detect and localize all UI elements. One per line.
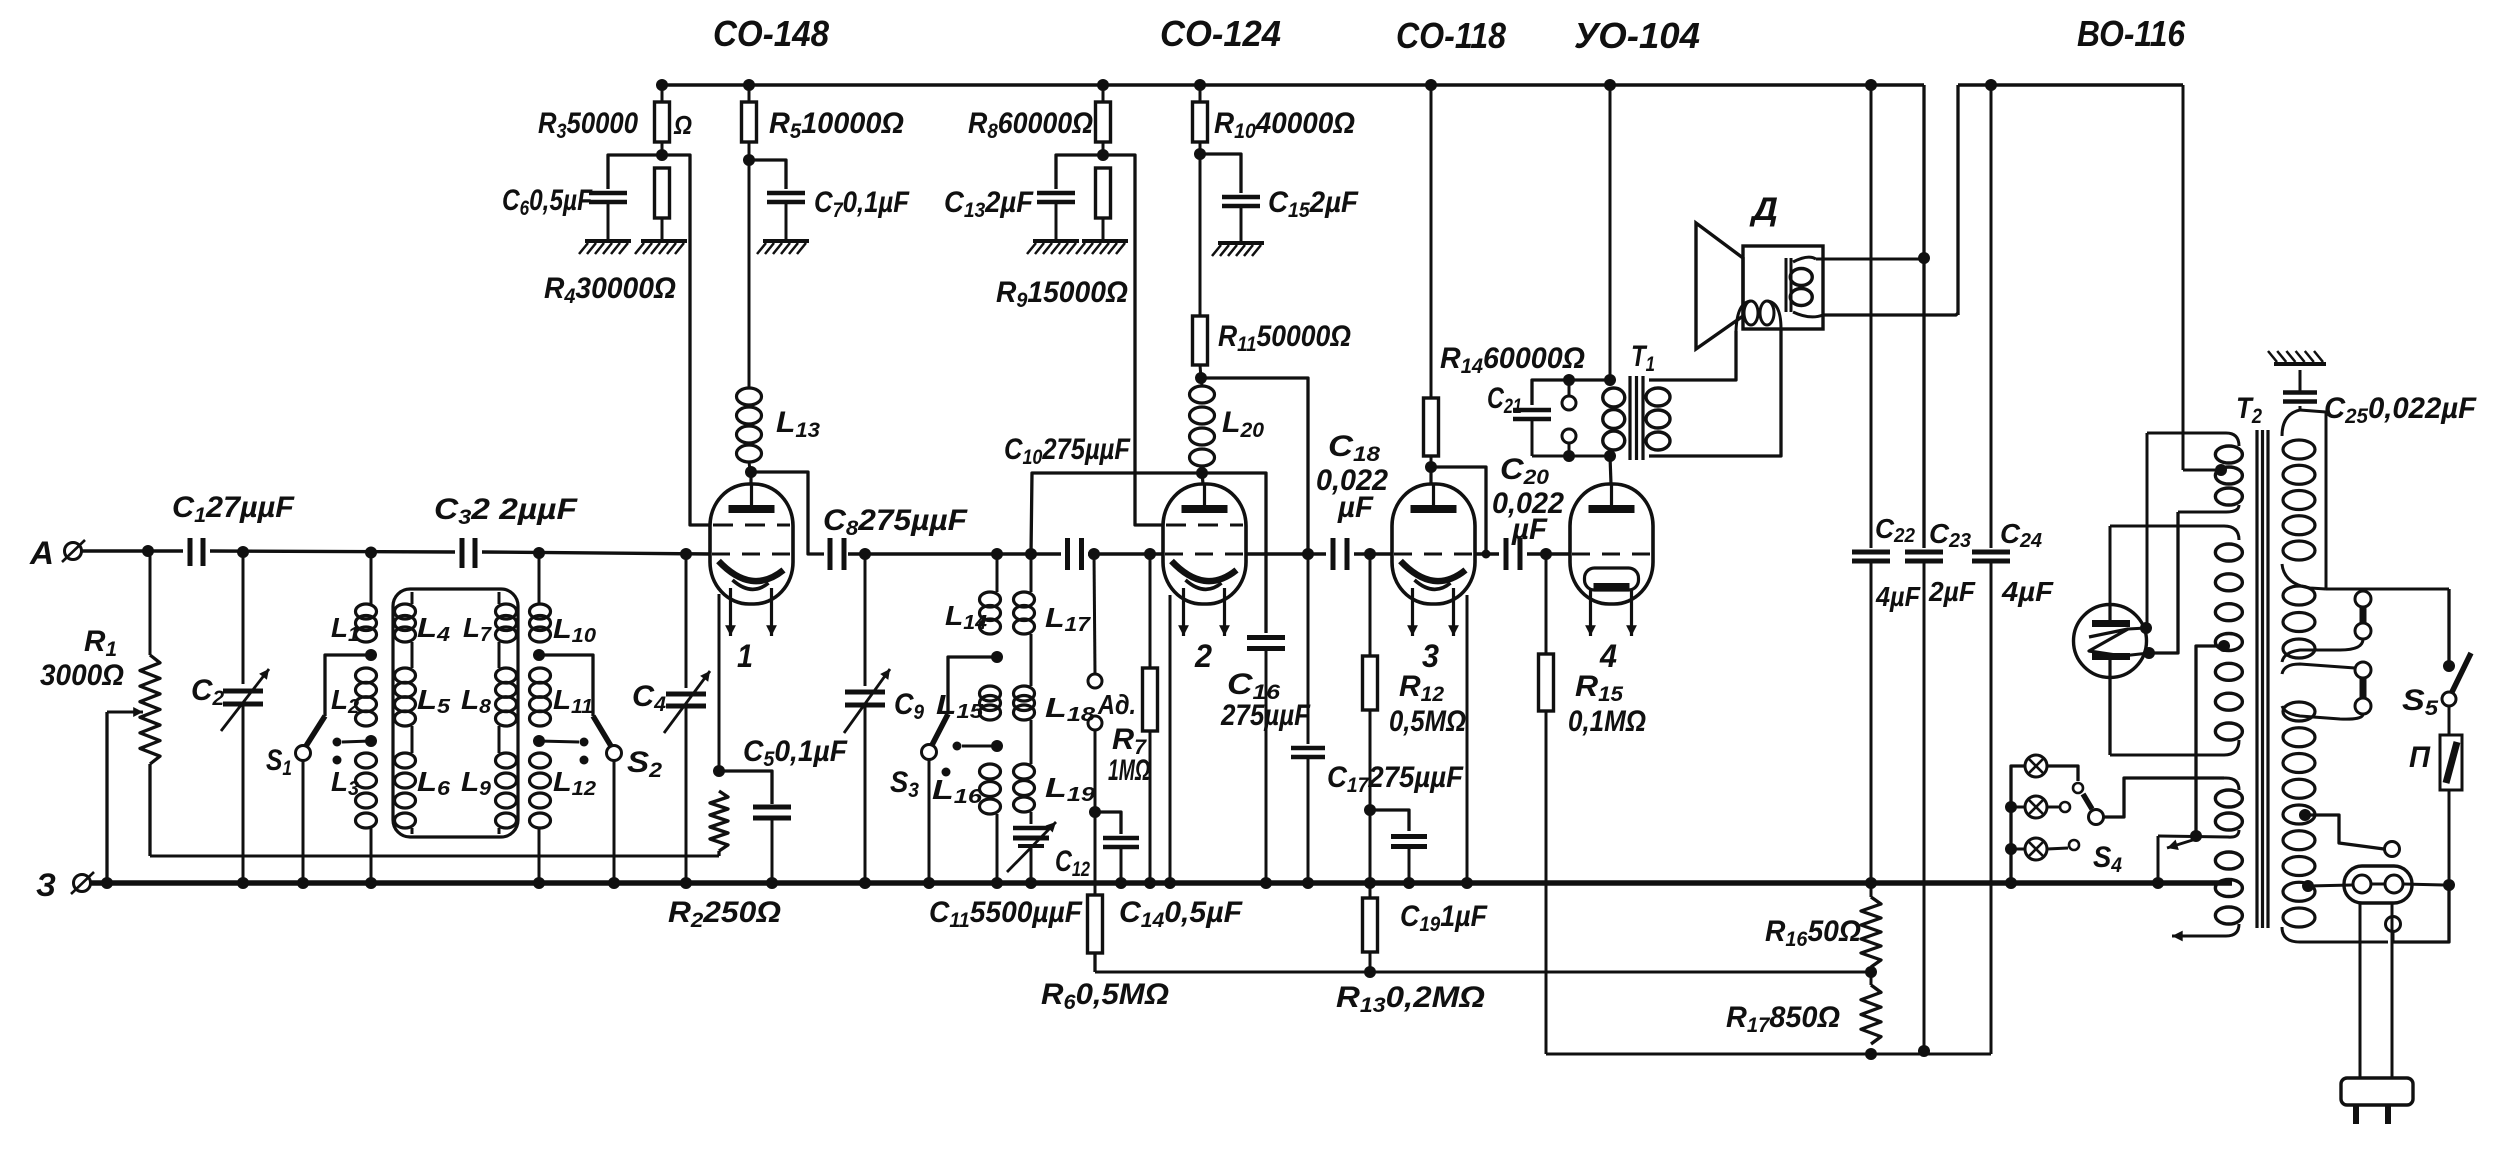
label R12: [1399, 670, 1444, 706]
node rect fil left: [2140, 622, 2152, 634]
node mains tap b: [2302, 880, 2314, 892]
inductor L12: [530, 753, 551, 883]
label R14 60000Ω: [1440, 342, 1585, 378]
switch S5: [2442, 589, 2471, 735]
wire T1 sec top: [1649, 331, 1736, 380]
ground C15: [1212, 243, 1264, 256]
inductor L6: [395, 753, 416, 834]
ground R4: [635, 241, 687, 254]
speaker body: [1743, 246, 1823, 329]
wire R1-R2 link: [150, 855, 719, 858]
resistor R1 3000: [140, 551, 160, 856]
label tube4 number: [1599, 638, 1617, 674]
resistor R13 0.2M: [1363, 883, 1378, 972]
label C8 275µµF: [823, 504, 968, 540]
wire R1 wiper: [107, 707, 143, 883]
node L14-L15: [991, 651, 1003, 663]
label L12: [553, 766, 596, 800]
inductor L14: [980, 554, 1001, 634]
rectifier tube VO-116: [2074, 605, 2147, 678]
wire tube2 top stem: [1202, 473, 1203, 484]
capacitor C23 2uF: [1905, 85, 1943, 1051]
label type VO-116: [2077, 13, 2186, 54]
label R17 850Ω: [1726, 1001, 1840, 1037]
wire tube3 top stem: [1429, 467, 1432, 484]
label R4 30000Ω: [544, 272, 676, 308]
inductor L13: [737, 160, 762, 470]
label C1 27µµF: [172, 491, 295, 527]
node tube1 cathode: [713, 765, 725, 777]
svg-text:R1650Ω: R1650Ω: [1765, 915, 1861, 951]
label S3: [890, 766, 919, 802]
wire rect anode bottom: [2108, 678, 2111, 755]
label C15 2µF: [1268, 186, 1359, 222]
svg-text:4µF: 4µF: [1875, 581, 1921, 612]
transformer T1 primary: [1603, 388, 1625, 450]
inductor L9: [496, 753, 517, 834]
wire HT plus: [2183, 85, 2221, 470]
label S1: [266, 744, 292, 780]
fuse П: [2440, 735, 2462, 885]
node R5 bottom: [743, 154, 755, 166]
label R3 ohm: [673, 110, 692, 140]
label tube1 number: [737, 638, 753, 674]
switch S1: [296, 655, 372, 883]
resistor R5 10000: [742, 85, 757, 160]
resistor R10 40000: [1193, 85, 1208, 154]
svg-text:СО-124: СО-124: [1160, 13, 1281, 54]
inductor L10: [530, 553, 551, 642]
inductor L16: [980, 764, 1001, 883]
label L18: [1045, 692, 1096, 726]
label C3 22µµF: [434, 493, 578, 529]
speaker voice coil: [1736, 301, 1781, 331]
label R2 250Ω: [668, 896, 781, 932]
svg-text:З: З: [36, 867, 56, 903]
resistor R8 60000: [1096, 85, 1111, 155]
node L1-L2: [365, 649, 377, 661]
jack bottom: [1562, 429, 1576, 462]
label C22: [1875, 513, 1915, 547]
svg-text:Д: Д: [1749, 191, 1778, 227]
capacitor C21: [1513, 380, 1610, 456]
node R3-R4: [656, 149, 668, 161]
node bus dots right: [1865, 877, 2164, 889]
switch S3: [922, 657, 998, 883]
label C18: [1328, 430, 1380, 466]
jack top: [1562, 374, 1576, 410]
wire plate line stage3-4: [1475, 552, 1570, 555]
voltage link 1: [2282, 591, 2371, 662]
svg-text:275µµF: 275µµF: [1220, 699, 1310, 732]
speaker horn: [1696, 223, 1743, 349]
inductor L1: [356, 552, 377, 642]
wire rect fil left: [2128, 433, 2147, 629]
label C2: [191, 674, 224, 710]
node bus dots left: [101, 877, 778, 889]
T2 filament winding D: [2184, 852, 2242, 936]
label C5 0,1µF: [743, 735, 848, 771]
capacitor C15: [1200, 154, 1260, 243]
inductor L8: [496, 668, 517, 753]
label C21: [1487, 382, 1522, 418]
label C12: [1055, 845, 1090, 881]
resistor R7 1M: [1143, 554, 1158, 883]
node T1 bottom: [1604, 450, 1616, 462]
capacitor C20: [1506, 538, 1520, 570]
svg-text:µF: µF: [1337, 491, 1374, 524]
label L19: [1045, 772, 1096, 806]
label C23 value: [1928, 576, 1976, 607]
svg-text:C191µF: C191µF: [1400, 900, 1488, 936]
resistor R2 250: [710, 791, 728, 856]
wire fil C to bus: [2157, 836, 2160, 883]
label tube3 number: [1422, 638, 1439, 674]
capacitor C18: [1333, 538, 1347, 570]
label C24 value: [2001, 576, 2054, 607]
svg-text:4µF: 4µF: [2001, 576, 2054, 607]
label terminal A: [29, 535, 54, 571]
capacitor C25: [2283, 370, 2317, 410]
svg-text:C140,5µF: C140,5µF: [1119, 896, 1243, 932]
node L10-L11: [533, 649, 545, 661]
resistor R11 50000: [1193, 154, 1208, 378]
ground C25: [2268, 351, 2326, 364]
coil box screen: [393, 589, 518, 837]
node rect fil right: [2143, 647, 2155, 659]
node antenna line dots: [142, 545, 692, 560]
wire chassis bus З: [90, 880, 2232, 886]
label L2: [331, 684, 359, 718]
ground C6: [579, 241, 631, 254]
svg-text:µF: µF: [1511, 513, 1548, 546]
resistor R14 60000: [1424, 85, 1439, 467]
label C20 value2: [1492, 487, 1564, 520]
svg-text:R2250Ω: R2250Ω: [668, 896, 781, 932]
label L7: [463, 612, 492, 646]
inductor L5: [395, 668, 416, 753]
inductor L18: [1014, 686, 1035, 764]
label R7 value: [1108, 754, 1150, 787]
switch S2: [539, 655, 622, 883]
resistor R6 0.5M: [1088, 812, 1103, 972]
label C7 0,1µF: [814, 186, 910, 222]
ground C13: [1027, 241, 1079, 254]
label R1 value: [40, 659, 124, 692]
label fuse П: [2409, 741, 2431, 774]
wire feedback to grid coil: [1031, 473, 1202, 554]
capacitor C17: [1291, 554, 1325, 883]
node fil C tap: [2190, 830, 2202, 842]
label S2: [627, 746, 662, 782]
wire screen grid tube1: [662, 155, 711, 525]
label L8: [461, 684, 492, 718]
svg-text:C32 2µµF: C32 2µµF: [434, 493, 578, 529]
wire R11 to plate line: [1201, 378, 1308, 554]
speaker core: [1786, 258, 1791, 312]
label C9: [894, 688, 924, 724]
capacitor C6: [589, 155, 662, 241]
mains plug: [2341, 1078, 2413, 1124]
node bus dots middle: [859, 877, 1473, 889]
capacitor C2 variable: [221, 552, 269, 883]
svg-text:R350000: R350000: [538, 107, 638, 143]
svg-text:3000Ω: 3000Ω: [40, 659, 124, 692]
label L3: [331, 766, 359, 800]
label R11 50000Ω: [1218, 320, 1351, 356]
node mains tap a: [2299, 809, 2311, 821]
wire screen grid tube2: [1103, 155, 1164, 525]
label C16 value: [1220, 699, 1310, 732]
label type CO-118: [1396, 15, 1506, 56]
wire tube3 cathode: [1466, 595, 1469, 883]
svg-text:Ω: Ω: [673, 110, 692, 140]
label C16: [1227, 668, 1280, 704]
label tube2 number: [1194, 638, 1212, 674]
capacitor C16: [1202, 473, 1285, 883]
label C22 value: [1875, 581, 1921, 612]
svg-text:C132µF: C132µF: [944, 186, 1034, 222]
capacitor C24 4uF: [1972, 85, 2010, 1054]
label L13: [776, 406, 820, 442]
capacitor C10: [1068, 538, 1082, 570]
arrow filament a: [2167, 839, 2196, 850]
speaker field coil: [1790, 257, 1823, 317]
svg-text:C70,1µF: C70,1µF: [814, 186, 910, 222]
svg-text:C127µµF: C127µµF: [172, 491, 295, 527]
label C20 value3: [1511, 513, 1548, 546]
label C25 0,022µF: [2324, 392, 2477, 428]
wire socket bottom loop: [2393, 890, 2449, 942]
node R10 bottom: [1194, 148, 1206, 160]
inductor L7: [496, 592, 517, 668]
node L11-L12: [533, 735, 545, 747]
ground R9: [1076, 241, 1128, 254]
lamp 1: [2025, 755, 2047, 777]
node mains right: [2443, 879, 2455, 891]
node grid2 line dots: [859, 548, 1156, 560]
svg-text:C60,5µF: C60,5µF: [502, 184, 593, 220]
node supply bus dots: [656, 79, 1997, 91]
node L20 bottom: [1196, 467, 1208, 479]
terminal Ад top: [1088, 554, 1102, 688]
label C13 2µF: [944, 186, 1034, 222]
svg-text:1: 1: [737, 638, 753, 674]
lamp 2: [2025, 796, 2047, 818]
label R16 50Ω: [1765, 915, 1861, 951]
label L20: [1222, 406, 1264, 442]
svg-text:R130,2МΩ: R130,2МΩ: [1336, 981, 1485, 1017]
label C18 value3: [1337, 491, 1374, 524]
capacitor C14: [1095, 812, 1139, 883]
resistor R15 0.1M: [1539, 554, 1554, 1054]
label L1: [331, 612, 359, 646]
svg-text:УО-104: УО-104: [1574, 15, 1700, 56]
label R10 40000Ω: [1214, 107, 1355, 143]
wire grid line stage2: [848, 552, 1163, 555]
label C24: [2000, 518, 2042, 552]
node field top: [1918, 252, 1930, 264]
wire S4 to filament winding: [2104, 778, 2224, 817]
capacitor C3: [462, 538, 475, 568]
tube 1 CO-148: [710, 484, 793, 636]
label R7: [1112, 723, 1147, 759]
wire plate1 to C8: [751, 472, 824, 554]
label T2: [2236, 392, 2262, 428]
label R13 0,2MΩ: [1336, 981, 1485, 1017]
label C4: [632, 680, 666, 716]
label R12 value: [1389, 705, 1466, 738]
node plate lines dots: [1302, 548, 1552, 560]
node tube1 plate: [745, 466, 757, 478]
label L6: [417, 766, 451, 800]
inductor L17: [1014, 554, 1035, 686]
wire plate3 branch: [1431, 467, 1491, 559]
T2 rectifier filament winding: [2147, 433, 2242, 512]
label T1: [1631, 340, 1655, 376]
label R6 0,5MΩ: [1041, 978, 1169, 1014]
node R16-R17: [1865, 966, 1877, 978]
label Ад.: [1097, 689, 1136, 720]
svg-text:C8275µµF: C8275µµF: [823, 504, 968, 540]
label C23: [1929, 518, 1971, 552]
inductor L3: [356, 753, 377, 883]
mains socket: [2344, 866, 2412, 903]
voltage link 2: [2282, 662, 2371, 719]
wire mains tap to S5: [2282, 410, 2449, 589]
switch S4: [2047, 766, 2104, 850]
resistor R16 50: [1861, 883, 1881, 967]
svg-text:R915000Ω: R915000Ω: [996, 276, 1128, 312]
capacitor C8: [830, 538, 844, 570]
capacitor C5: [719, 771, 791, 883]
label L16: [932, 774, 983, 808]
wire tube2 cathode: [1169, 595, 1172, 883]
label R1: [84, 625, 117, 661]
capacitor C19: [1370, 810, 1427, 883]
inductor L15: [980, 686, 1001, 720]
T2 filament winding C: [2124, 778, 2242, 837]
svg-text:ВО-116: ВО-116: [2077, 13, 2186, 54]
label L15: [936, 689, 984, 723]
label type UO-104: [1574, 15, 1700, 56]
wire tube1 plate stem: [749, 472, 752, 484]
wire T1 sec bottom: [1649, 329, 1781, 456]
wire tube4 top stem: [1610, 456, 1611, 484]
capacitor C4 variable: [664, 554, 710, 883]
wire plate supply bus: [662, 83, 2183, 87]
wire tube1 cathode: [718, 594, 721, 771]
inductor L2: [356, 668, 377, 726]
svg-text:2: 2: [1194, 638, 1212, 674]
svg-text:4: 4: [1599, 638, 1617, 674]
svg-text:А: А: [29, 535, 54, 571]
label C6 0,5µF: [502, 184, 593, 220]
wire bias line: [1095, 971, 1871, 974]
resistor R4 30000: [655, 168, 670, 241]
antenna terminal A: [62, 540, 148, 562]
ground C7: [757, 241, 809, 254]
wire plug leads: [2360, 903, 2392, 1078]
wire field top: [1816, 258, 1921, 261]
inductor L11: [530, 668, 551, 726]
lamp 3: [2025, 838, 2047, 860]
node L2-L3: [365, 735, 377, 747]
wire plate line stage2-3: [1246, 552, 1392, 555]
svg-text:3: 3: [1422, 638, 1439, 674]
node R11 bottom: [1195, 372, 1207, 384]
label type CO-124: [1160, 13, 1281, 54]
svg-text:2µF: 2µF: [1928, 576, 1976, 607]
label C14 0,5µF: [1119, 896, 1243, 932]
capacitor C9 variable: [844, 554, 890, 883]
earth terminal З: [71, 872, 94, 894]
tube 4 UO-104: [1570, 484, 1653, 636]
wire antenna line: [148, 551, 710, 554]
tube 2 CO-124: [1163, 484, 1246, 636]
node L15-L16: [991, 740, 1003, 752]
label speaker Д: [1749, 191, 1778, 227]
node R17 bottom: [1865, 1048, 1877, 1060]
capacitor C22 4uF: [1852, 85, 1890, 883]
label R15 value: [1568, 705, 1646, 738]
label C10 275µµF: [1004, 433, 1131, 469]
wire lamp rail: [2005, 766, 2025, 883]
label R5 10000Ω: [769, 107, 904, 143]
T2 mains winding upper: [2282, 410, 2315, 658]
label L17: [1045, 602, 1091, 636]
label C20: [1500, 453, 1549, 489]
wire HV centre tap: [2196, 646, 2224, 836]
terminal Ад bottom: [1088, 716, 1102, 812]
node R13 bottom: [1364, 966, 1376, 978]
wire tap a: [2305, 815, 2400, 857]
transformer T2 core: [2257, 430, 2268, 928]
inductor L20: [1190, 378, 1215, 470]
label L4: [417, 612, 450, 646]
svg-text:C152µF: C152µF: [1268, 186, 1359, 222]
capacitor C7: [749, 160, 805, 241]
svg-text:СО-118: СО-118: [1396, 15, 1506, 56]
svg-text:R60,5МΩ: R60,5МΩ: [1041, 978, 1169, 1014]
wire rect anode top: [2109, 526, 2112, 605]
label C11 5500µµF: [929, 896, 1083, 932]
tube 3 CO-118: [1392, 484, 1475, 636]
label S4: [2093, 841, 2122, 877]
label L5: [417, 684, 451, 718]
node HT centre tap: [2215, 464, 2227, 476]
resistor R17 850: [1861, 967, 1881, 1044]
node HV centre tap: [2218, 640, 2230, 652]
T2 mains winding lower: [2282, 702, 2388, 942]
wire socket to S5 node: [2403, 884, 2444, 885]
wire R12 to bus: [1369, 810, 1372, 883]
label R9 15000Ω: [996, 276, 1128, 312]
transformer T1 secondary: [1646, 388, 1670, 450]
svg-text:Ад.: Ад.: [1097, 689, 1136, 720]
node tube3 plate: [1425, 461, 1437, 473]
svg-text:R510000Ω: R510000Ω: [769, 107, 904, 143]
node R8-R9: [1097, 149, 1109, 161]
wire rect fil right: [2122, 512, 2178, 656]
label C17 275µµF: [1327, 761, 1464, 797]
label L9: [461, 766, 492, 800]
svg-text:0,5МΩ: 0,5МΩ: [1389, 705, 1466, 738]
node R12 bottom: [1364, 804, 1376, 816]
wire field bottom: [1823, 313, 1958, 315]
node C23 bottom: [1918, 1045, 1930, 1057]
wire HV minus line: [1546, 1053, 1991, 1056]
